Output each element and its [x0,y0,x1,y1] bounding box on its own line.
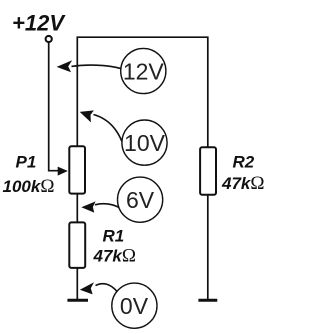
wire top rail from P1 top to R2 top [77,37,208,147]
arrow 0V to ground [96,284,118,292]
wire R2 bottom to ground [207,195,209,300]
potentiometer P1 [69,146,85,193]
svg-text:47kΩ: 47kΩ [93,246,137,267]
ground bar left [67,299,88,302]
balloon 12V [121,48,166,93]
svg-text:100kΩ: 100kΩ [3,176,55,197]
+12V terminal node [46,36,52,42]
wire from +12V node down to wiper [49,43,59,171]
balloon 0V [112,283,157,328]
arrow 10V to P1 top wire [94,115,122,142]
svg-text:R1: R1 [103,226,125,245]
svg-text:0V: 0V [120,293,149,319]
wire P1 bottom to R1 top [76,194,78,223]
ground bar right [198,299,217,302]
wire R1 bottom to ground [76,268,78,300]
wiper arrowhead into P1 [58,167,68,176]
svg-text:P1: P1 [16,153,37,172]
arrow 12V to +12V rail [72,65,122,69]
balloon 6V [118,177,163,222]
svg-text:12V: 12V [123,58,165,84]
resistor R1 [69,222,85,268]
svg-text:47kΩ: 47kΩ [221,173,265,194]
svg-text:+12V: +12V [12,11,66,36]
svg-text:10V: 10V [124,130,166,156]
arrow 6V to P1/R1 junction [95,204,119,208]
balloon 10V [122,120,167,165]
resistor R2 [200,147,216,195]
svg-text:6V: 6V [126,187,155,213]
svg-text:R2: R2 [233,153,255,172]
